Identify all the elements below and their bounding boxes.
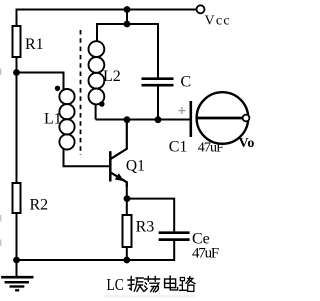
caption char dian [165, 276, 178, 290]
wire: L bottom to transistor base [64, 149, 111, 166]
winding polarity dot of L [55, 86, 60, 91]
capacitor C plates [142, 79, 174, 86]
node: junction dot R3 bottom [123, 257, 130, 264]
transistor Q1 base bar [109, 151, 112, 181]
node: junction dot R1/R2/base branch [13, 69, 20, 76]
node: junction dot collector [124, 116, 131, 123]
caption char zhen [128, 277, 144, 292]
plus sign of C1 [178, 107, 185, 114]
wire: R1 bottom to R2 top [16, 57, 18, 183]
wire: second rail L2 top to C top [97, 24, 158, 78]
svg-text:47uF: 47uF [192, 246, 219, 262]
node: Vcc terminal circle [197, 5, 205, 13]
svg-text:C1: C1 [169, 139, 188, 156]
node: junction dot on second rail [124, 21, 131, 28]
transistor Q1 collector lead [111, 120, 127, 159]
svg-text:Q1: Q1 [126, 158, 145, 175]
caption char lu [180, 276, 196, 291]
edge artifact marks [0, 69, 1, 247]
capacitor C1 plate [190, 101, 193, 137]
wire: emitter branch to Ce [127, 199, 174, 232]
node: emitter junction dot [124, 195, 131, 202]
wire: emitter down to R3 [126, 182, 128, 216]
transistor Q1 emitter lead [111, 173, 127, 187]
wire: Ce bottom lead [173, 241, 175, 261]
wire: R3 bottom lead [126, 247, 128, 260]
resistor R1 [13, 26, 21, 57]
inductor L2 coil [89, 41, 105, 104]
svg-text:R1: R1 [25, 36, 44, 53]
svg-text:Vcc: Vcc [205, 14, 231, 29]
dashed core line of transformer [80, 30, 82, 155]
wire: bias branch to coil L top [17, 73, 64, 90]
caption char dang [144, 276, 159, 292]
wire: bottom rail [17, 259, 175, 261]
ground symbol [1, 260, 33, 290]
node: junction dot on top rail [124, 6, 131, 13]
svg-text:C: C [181, 74, 192, 91]
svg-text:R2: R2 [30, 196, 49, 213]
svg-text:LC: LC [107, 275, 124, 294]
faint jpeg smudge under caption [103, 295, 195, 298]
wire: tank output rail [96, 119, 190, 121]
svg-text:L1: L1 [44, 111, 62, 128]
node: ground junction dot [13, 257, 20, 264]
wire: top rail from R1 to Vcc [16, 9, 197, 11]
winding polarity dot of L2 [99, 101, 105, 107]
wire: R1 top lead [16, 9, 18, 27]
output transducer circle [197, 92, 249, 144]
node: junction dot under C [155, 116, 162, 123]
resistor R3 [123, 215, 132, 247]
output transducer diameter line [197, 117, 244, 120]
wire: C bottom lead [157, 87, 159, 120]
wire: L2 bottom lead [95, 104, 97, 120]
node: output terminal small circle [243, 115, 250, 122]
wire: R2 bottom to ground node [16, 213, 18, 260]
svg-text:Vo: Vo [239, 136, 255, 151]
resistor R2 [13, 183, 21, 213]
inductor L1 coil [59, 89, 74, 149]
wire: short link between rails [126, 10, 128, 25]
transistor Q1 emitter arrow [115, 173, 124, 181]
svg-text:L2: L2 [103, 68, 121, 85]
capacitor Ce plates [159, 233, 190, 240]
svg-text:R3: R3 [136, 218, 155, 235]
